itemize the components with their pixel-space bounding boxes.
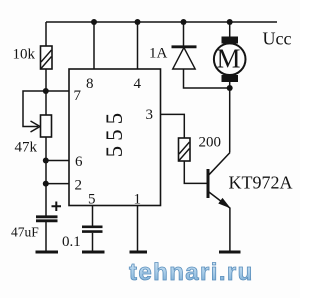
svg-text:47k: 47k xyxy=(15,140,38,156)
svg-text:200: 200 xyxy=(199,135,222,151)
svg-text:2: 2 xyxy=(75,178,83,194)
svg-text:1: 1 xyxy=(134,192,142,208)
svg-text:0.1: 0.1 xyxy=(62,234,81,250)
svg-text:Ucc: Ucc xyxy=(263,29,292,49)
svg-text:KT972A: KT972A xyxy=(229,173,293,193)
svg-text:10k: 10k xyxy=(13,47,36,63)
svg-text:M: M xyxy=(217,44,241,74)
svg-text:4: 4 xyxy=(134,76,142,92)
svg-text:5: 5 xyxy=(88,192,96,208)
svg-text:1A: 1A xyxy=(149,46,168,62)
svg-text:6: 6 xyxy=(75,154,83,170)
svg-text:555: 555 xyxy=(102,108,127,158)
svg-text:tehnari.ru: tehnari.ru xyxy=(129,259,254,286)
svg-text:7: 7 xyxy=(74,88,82,104)
svg-text:47uF: 47uF xyxy=(11,225,39,240)
svg-text:3: 3 xyxy=(146,107,154,123)
svg-text:8: 8 xyxy=(86,76,94,92)
